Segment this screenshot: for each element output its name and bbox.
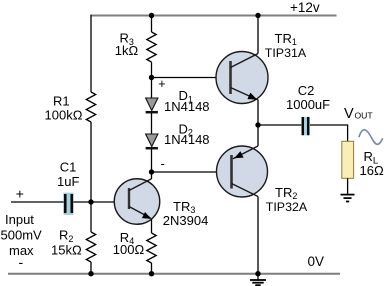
svg-text:1kΩ: 1kΩ: [115, 43, 139, 58]
transistor TR3: [114, 179, 160, 225]
capacitor C2: [301, 117, 310, 136]
wire node plus to TR1 base: [152, 77, 231, 79]
resistor R4: [147, 233, 156, 263]
wire TR3 collector to node minus: [151, 172, 153, 179]
node TR2 collector-0V: [255, 271, 260, 276]
wire R1 bottom to input node: [90, 122, 92, 202]
svg-text:+: +: [16, 185, 24, 201]
svg-text:1000uF: 1000uF: [286, 97, 330, 112]
svg-text:100kΩ: 100kΩ: [45, 108, 83, 123]
svg-text:C2: C2: [298, 83, 315, 98]
svg-text:R1: R1: [53, 94, 70, 109]
transistor TR2: [217, 146, 268, 197]
diode D1: [151, 78, 153, 99]
diode D2: [146, 134, 158, 147]
wire input line: [11, 201, 64, 203]
node R2-0V: [88, 271, 93, 276]
svg-text:100Ω: 100Ω: [113, 242, 145, 257]
node R4-0V: [149, 271, 154, 276]
wire TR1 emitter down to output node and TR2 emitter: [257, 100, 259, 147]
svg-text:V: V: [344, 106, 354, 122]
transistor TR1: [216, 52, 268, 104]
wire C1 to TR3 base: [74, 201, 130, 203]
svg-text:1N4148: 1N4148: [164, 99, 210, 114]
svg-text:TIP32A: TIP32A: [266, 200, 308, 214]
+12V supply rail: [90, 15, 336, 17]
wire TR3 emitter to R4: [151, 219, 153, 234]
node minus (D2/TR3 coll/TR2 base): [149, 169, 154, 174]
wire TR2 collector to 0V: [257, 197, 259, 274]
svg-text:+12v: +12v: [290, 0, 320, 15]
wire left vertical top (rail to R1): [90, 15, 92, 92]
svg-text:Input: Input: [5, 212, 34, 227]
ground under RL: [341, 195, 355, 202]
svg-text:-: -: [161, 156, 165, 171]
svg-text:-: -: [19, 254, 24, 270]
resistor R2: [90, 202, 92, 232]
svg-text:0V: 0V: [308, 254, 325, 269]
node rail-R3: [149, 13, 154, 18]
svg-text:C1: C1: [60, 160, 77, 175]
resistor R1: [86, 92, 95, 122]
resistor R3: [151, 16, 153, 33]
node output: [255, 122, 260, 127]
wire C2 to Vout corner: [310, 125, 348, 141]
wire TR1 collector to rail: [257, 15, 259, 54]
svg-text:1uF: 1uF: [57, 174, 79, 189]
sine wave output waveform icon: [359, 130, 383, 144]
wire RL to ground: [347, 178, 349, 194]
svg-text:TIP31A: TIP31A: [265, 46, 307, 60]
node plus (R3/D1/TR1 base): [149, 75, 154, 80]
svg-text:2N3904: 2N3904: [163, 213, 209, 228]
svg-text:OUT: OUT: [355, 111, 374, 121]
ground under 0V rail: [250, 274, 266, 286]
svg-text:15kΩ: 15kΩ: [51, 243, 82, 258]
0V supply rail: [8, 273, 340, 275]
resistor RL (load): [342, 141, 354, 178]
svg-text:16Ω: 16Ω: [360, 163, 384, 178]
svg-text:+: +: [158, 77, 165, 91]
wire output node to C2: [258, 124, 302, 126]
svg-text:1N4148: 1N4148: [164, 132, 210, 147]
wire node minus to TR2 base: [152, 171, 232, 173]
capacitor C1: [64, 193, 74, 215]
node rail-TR1 collector: [255, 13, 260, 18]
svg-text:500mV: 500mV: [1, 228, 43, 243]
node input (R1/R2/C1/base): [88, 199, 93, 204]
